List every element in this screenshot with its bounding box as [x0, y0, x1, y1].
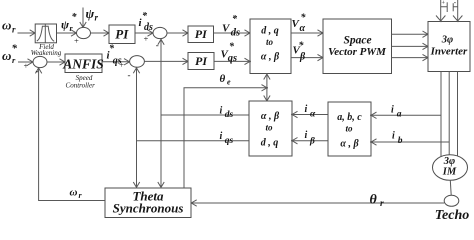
DC link capacitor: [441, 0, 458, 12]
svg-text:PI: PI: [195, 54, 208, 68]
wire S3 to PI3: [144, 58, 188, 64]
abc to alpha-beta transform block: [328, 102, 371, 156]
svg-text:PI: PI: [195, 27, 208, 41]
svg-text:i: i: [305, 130, 308, 141]
i_qs feedback wire with junction to S3 and theta synchronous: [133, 67, 250, 188]
svg-text:i: i: [391, 105, 394, 116]
svg-text:ω: ω: [70, 187, 78, 199]
wire V*_ds to dq->alphabeta block: [214, 14, 251, 38]
tachometer: [435, 195, 469, 223]
phase line c: [457, 72, 459, 157]
svg-text:ψ: ψ: [86, 6, 95, 21]
wire i*_qs to summing junction S3: [102, 44, 130, 70]
svg-text:Controller: Controller: [66, 81, 96, 89]
alpha-beta to dq transform block: [249, 101, 292, 156]
svg-text:to: to: [265, 122, 273, 132]
svg-text:to: to: [266, 37, 274, 47]
wire V*_alpha to SVPWM: [291, 13, 324, 37]
wire V*_beta to SVPWM: [291, 41, 324, 63]
svg-text:θ: θ: [370, 193, 378, 208]
summing junction S1 (flux error): [74, 27, 91, 45]
i_ds feedback wire with junction to S2 and theta synchronous: [158, 39, 250, 189]
svg-text:IM: IM: [442, 167, 457, 178]
PI controller PI2 (d-axis current): [188, 26, 214, 43]
omega_r feedback wire to S4: [35, 67, 105, 200]
svg-text:to: to: [345, 123, 353, 133]
wire S4 to ANFIS: [47, 59, 66, 65]
svg-text:i: i: [305, 104, 308, 115]
svg-text:α , β: α , β: [261, 111, 280, 122]
svg-text:r: r: [380, 199, 384, 209]
svg-text:Synchronous: Synchronous: [113, 200, 184, 215]
wire S2 to PI2: [167, 30, 189, 36]
shaft coupling to tachometer: [449, 180, 452, 195]
dq to alpha-beta transform block: [250, 19, 291, 74]
space vector PWM block: [323, 19, 392, 74]
wire S1 to PI1: [91, 30, 110, 36]
wire psi*_r (flux reference) to summing junction S1: [57, 12, 78, 36]
svg-text:ANFIS: ANFIS: [62, 56, 104, 71]
svg-text:β: β: [309, 137, 315, 147]
svg-text:*: *: [12, 43, 18, 55]
svg-text:+: +: [74, 36, 80, 46]
PI controller PI1 (flux): [109, 25, 135, 44]
wire i_beta: [291, 130, 328, 147]
svg-text:ds: ds: [231, 27, 240, 38]
svg-text:a, b, c: a, b, c: [337, 112, 362, 123]
PWM gate wire 1: [392, 31, 429, 37]
wire V*_qs to dq->alphabeta block: [214, 42, 251, 65]
wire i*_ds to summing junction S2: [135, 11, 154, 44]
svg-text:3φ: 3φ: [441, 34, 453, 45]
PWM gate wire 3: [392, 54, 429, 60]
svg-text:d , q: d , q: [261, 138, 279, 149]
svg-text:ds: ds: [144, 22, 153, 33]
wire theta_r from tachometer to theta synchronous block: [190, 193, 444, 210]
summing junction S2 (d-axis current error): [153, 27, 167, 50]
wire i_a from phase line a: [370, 105, 441, 120]
wire omega_r to field weakening: [18, 30, 37, 36]
svg-text:Techo: Techo: [435, 208, 469, 221]
ANFIS speed controller block: [62, 54, 104, 89]
svg-text:qs: qs: [225, 136, 234, 146]
svg-text:ds: ds: [225, 110, 234, 120]
input omega*_r (speed reference): [2, 43, 34, 71]
svg-text:α: α: [300, 23, 306, 34]
svg-text:+: +: [143, 34, 149, 44]
svg-text:ω: ω: [2, 48, 11, 63]
svg-text:α , β: α , β: [261, 52, 280, 63]
svg-text:Space: Space: [343, 35, 371, 47]
svg-text:-: -: [36, 66, 39, 76]
svg-text:i: i: [220, 131, 223, 142]
svg-text:i: i: [220, 106, 223, 117]
wire i_b from phase line b: [370, 131, 449, 147]
wire i_alpha: [291, 104, 328, 120]
summing junction S4 (speed error): [33, 56, 47, 76]
svg-text:α: α: [310, 110, 316, 120]
svg-text:r: r: [95, 13, 99, 23]
svg-text:+: +: [23, 61, 29, 71]
field weakening block: [31, 24, 62, 57]
induction motor 3phi IM: [433, 155, 468, 181]
svg-text:Weakening: Weakening: [31, 49, 62, 57]
svg-text:e: e: [227, 78, 231, 87]
psi_r input from top: [80, 6, 99, 28]
theta_e wire from theta synchronous to both transform blocks: [184, 73, 270, 188]
svg-text:α , β: α , β: [340, 139, 359, 150]
svg-text:Inverter: Inverter: [430, 46, 468, 58]
svg-text:a: a: [397, 110, 402, 120]
PWM gate wire 2: [392, 43, 429, 49]
svg-text:+: +: [119, 60, 125, 70]
3-phase inverter block: [428, 22, 470, 72]
phase line b: [448, 72, 450, 156]
summing junction S3 (q-axis current error): [128, 56, 145, 80]
svg-text:-: -: [128, 70, 131, 80]
svg-text:3φ: 3φ: [443, 156, 455, 167]
svg-text:qs: qs: [228, 53, 237, 64]
PI controller PI3 (q-axis current): [188, 53, 214, 70]
theta synchronous block: [105, 188, 191, 218]
svg-text:b: b: [398, 136, 403, 146]
svg-text:-: -: [156, 40, 159, 50]
DC link supply rail left: [436, 0, 445, 22]
svg-text:r: r: [12, 25, 16, 35]
svg-text:PI: PI: [115, 27, 129, 42]
DC link supply rail right: [453, 0, 462, 22]
phase line a: [440, 72, 442, 157]
svg-text:θ: θ: [220, 73, 226, 85]
svg-text:Vector PWM: Vector PWM: [328, 46, 387, 58]
svg-text:β: β: [299, 52, 306, 63]
svg-text:+: +: [441, 0, 445, 7]
svg-text:i: i: [392, 131, 395, 142]
svg-text:ω: ω: [2, 18, 11, 33]
input omega_r (measured speed, top-left): [2, 18, 16, 35]
svg-text:d , q: d , q: [261, 26, 279, 37]
